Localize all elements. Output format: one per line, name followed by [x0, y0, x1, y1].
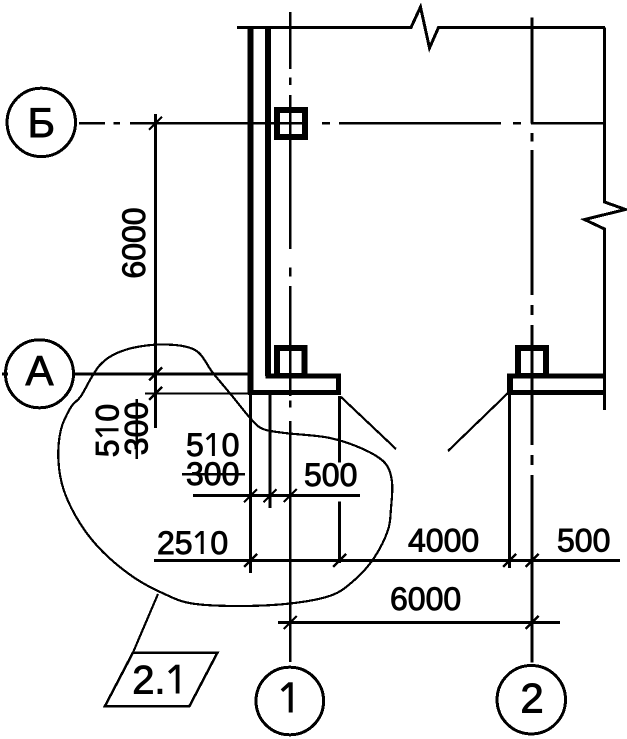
svg-text:2: 2 [520, 675, 543, 722]
grid circle Б [7, 88, 75, 156]
svg-text:0: 0 [210, 525, 228, 561]
column at axis А / axis 2 [515, 345, 549, 378]
dimension tick at (339.5,560.5) [333, 554, 346, 567]
extension line below right foundation edge x=509 [508, 395, 511, 568]
svg-text:25: 25 [157, 525, 193, 561]
dimension tick at (290.2,495.7) [284, 489, 297, 502]
axis А center line [75, 373, 248, 376]
left foundation bottom edge [248, 390, 341, 395]
extension line below wall inner face x=270 [269, 395, 272, 508]
dimension tick at (155.5,374) [149, 368, 162, 381]
dimension line y=560 (2510/4000/500) [154, 559, 620, 562]
detail mark parallelogram [105, 653, 218, 707]
dimension tick at (290.2,622.5) [284, 616, 297, 629]
dimension tick at (532,622.5) [526, 616, 539, 629]
dimension tick at (250.5,560.5) [244, 554, 257, 567]
wall top edge line with break symbol [237, 7, 605, 48]
dimension tick at (155.5,393.5) [149, 387, 162, 400]
grid circle 1 [256, 667, 324, 735]
strike line over horizontal 300 [182, 473, 245, 476]
dimension tick at (155.5,123.3) [149, 117, 162, 130]
svg-text:4000: 4000 [408, 523, 479, 559]
grid circle 2 [497, 666, 565, 734]
grid circle А [6, 340, 74, 408]
column at axis А / axis 1 [274, 345, 308, 378]
svg-text:500: 500 [557, 523, 610, 559]
dimension line y=622 (6000) [278, 621, 560, 624]
axis 2 center line (dash-dot) [531, 18, 534, 124]
revision cloud [58, 345, 392, 607]
wall line 2 (inner face of left wall) [265, 29, 271, 376]
left foundation top edge [266, 373, 342, 378]
dimension tick at (532,560.5) [526, 554, 539, 567]
right foundation left cap [507, 373, 513, 395]
leader from left foundation corner [341, 397, 396, 449]
svg-text:А: А [25, 347, 53, 394]
axis Б center line (dash-dot) [79, 122, 105, 125]
leader from right foundation corner [448, 393, 508, 451]
column at axis Б [274, 107, 308, 140]
axis А stub left of circle [2, 373, 8, 376]
right foundation bottom edge [507, 390, 605, 395]
wall line 1 (outer face of left wall) [248, 29, 254, 393]
svg-text:500: 500 [304, 457, 357, 493]
svg-text:300: 300 [119, 402, 155, 455]
left foundation right cap [336, 373, 341, 395]
dimension tick at (250.5,495.7) [244, 489, 257, 502]
dimension tick at (509.5,560.5) [503, 554, 516, 567]
leader to detail mark 2.1 [133, 594, 158, 653]
extension line below left foundation edge x=339 [338, 396, 341, 463]
axis 1 center line (dash-dot) [289, 12, 292, 69]
axis number 1 [282, 682, 291, 712]
strike line over vertical 300 [135, 399, 138, 459]
dimension tick at (270,495.7) [264, 489, 277, 502]
dimension line y=495 (510/300/500) [193, 494, 360, 497]
extension line below wall face x=250 [249, 395, 252, 573]
svg-text:2.: 2. [132, 659, 165, 703]
right foundation top edge [507, 373, 605, 378]
svg-text:300: 300 [186, 456, 239, 492]
vertical dimension line at x=155 [154, 114, 157, 428]
right boundary wall line with break symbol [585, 28, 626, 411]
extension line under left foundation [145, 393, 248, 395]
svg-text:6000: 6000 [116, 207, 152, 278]
svg-text:6000: 6000 [390, 581, 461, 617]
svg-text:Б: Б [28, 99, 56, 146]
